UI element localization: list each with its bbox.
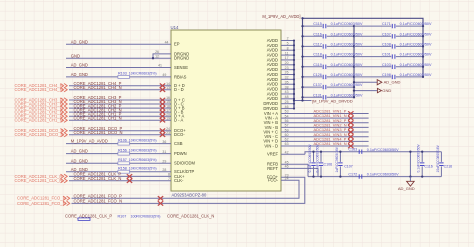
ground symbol AD_GND bbox=[409, 177, 411, 182]
svg-text:RBIAS: RBIAS bbox=[174, 74, 187, 79]
svg-text:10uF/CC0805/16V: 10uF/CC0805/16V bbox=[436, 144, 440, 172]
svg-text:C198: C198 bbox=[382, 73, 391, 77]
svg-text:CORE_ADC1281_DCO_N: CORE_ADC1281_DCO_N bbox=[15, 132, 64, 137]
svg-text:0.1uF/CC0603/50V: 0.1uF/CC0603/50V bbox=[400, 32, 432, 36]
svg-text:R106: R106 bbox=[118, 138, 127, 142]
wire net AD_GND to pin 41 SENSE bbox=[66, 67, 171, 69]
junction bbox=[301, 17, 303, 19]
svg-text:0.1uF/CC0603/50V: 0.1uF/CC0603/50V bbox=[400, 22, 432, 26]
IC U14 ADC body bbox=[171, 30, 281, 191]
wire net CORE_ADC1281_CLK_P to pin 8 bbox=[69, 175, 171, 177]
svg-text:8: 8 bbox=[287, 46, 289, 50]
wire net ADC1281_VIN4_N bbox=[281, 145, 369, 147]
capacitor C137 0.1uF bbox=[303, 86, 323, 88]
svg-text:C108: C108 bbox=[382, 42, 391, 46]
resistor R157 bbox=[118, 162, 130, 165]
svg-text:C117: C117 bbox=[313, 42, 322, 46]
differential pair no-ERC marks bbox=[160, 98, 165, 102]
wire net M_1P9V_AD_DRVDD bbox=[294, 100, 312, 102]
svg-text:CORE_ADC1281_CH1_N: CORE_ADC1281_CH1_N bbox=[15, 118, 63, 123]
wire net CORE_ADC1281_DCO_N to pin 23 bbox=[69, 134, 171, 136]
svg-text:41: 41 bbox=[158, 64, 162, 68]
wire net AD_GND to pin 31 bbox=[66, 153, 171, 155]
svg-text:23: 23 bbox=[285, 66, 289, 70]
no-ERC mark bbox=[348, 144, 353, 148]
wire net GND to pins 26/12 DRGND bbox=[66, 57, 171, 59]
resistor R158 bbox=[118, 170, 130, 173]
wire net ADC1281_VIN3_P bbox=[281, 131, 369, 133]
wire net ADC1281_VIN2_N bbox=[281, 126, 369, 128]
wire net CORE_ADC1281_CLK_N to pin 7 bbox=[69, 180, 171, 182]
svg-text:0.1uF/CC0603/50V: 0.1uF/CC0603/50V bbox=[331, 83, 363, 87]
svg-text:C119: C119 bbox=[313, 63, 322, 67]
wire AVDD collection rail bbox=[293, 41, 295, 109]
svg-text:12: 12 bbox=[155, 54, 159, 58]
svg-text:CSB: CSB bbox=[174, 141, 183, 146]
wire net AD_GND to pin 28 bbox=[66, 171, 171, 173]
svg-text:D - D: D - D bbox=[174, 87, 184, 92]
wire net CORE_ADC1281_FCO_P loop to FCO- pin 24 bbox=[72, 180, 300, 198]
svg-text:C103: C103 bbox=[382, 63, 391, 67]
svg-text:SENSE: SENSE bbox=[174, 65, 188, 70]
wire REF decoupling bottom rail bbox=[308, 176, 441, 178]
svg-text:M_1P9V_AD_AVDD]: M_1P9V_AD_AVDD] bbox=[262, 14, 300, 19]
svg-text:R156: R156 bbox=[118, 148, 127, 152]
wire net CORE_ADC1281_CH3_P to pin 16 bbox=[69, 99, 171, 101]
svg-text:26: 26 bbox=[285, 71, 289, 75]
wire net AD_GND to pin 49 bbox=[66, 76, 171, 78]
no-ERC mark bbox=[348, 111, 353, 115]
svg-text:EP: EP bbox=[174, 42, 180, 47]
svg-text:60: 60 bbox=[285, 133, 289, 137]
svg-text:35: 35 bbox=[285, 80, 289, 84]
svg-text:VREF: VREF bbox=[267, 152, 279, 157]
wire net AD_GND to pin 44 EP bbox=[66, 43, 171, 45]
svg-text:C137: C137 bbox=[313, 83, 322, 87]
svg-text:62: 62 bbox=[285, 138, 289, 142]
wire net ADC1281_VIN1_N bbox=[281, 117, 369, 119]
svg-text:C115: C115 bbox=[313, 22, 322, 26]
svg-text:46: 46 bbox=[285, 165, 289, 169]
capacitor C163 0.1uF bbox=[359, 150, 362, 154]
wire net CORE_ADC1281_CH2_N to pin 17 bbox=[69, 111, 171, 113]
wire net CORE_ADC1281_CH3_N to pin 15 bbox=[69, 103, 171, 105]
no-ERC mark bbox=[348, 135, 353, 139]
no-ERC mark bbox=[348, 116, 353, 120]
no-ERC mark bbox=[348, 125, 353, 129]
svg-text:CORE_ADC1281_FCO_N: CORE_ADC1281_FCO_N bbox=[17, 201, 66, 206]
no-ERC mark bbox=[348, 139, 353, 143]
svg-text:38: 38 bbox=[285, 85, 289, 89]
svg-text:CORE_ADC1281_CLK_N: CORE_ADC1281_CLK_N bbox=[74, 176, 122, 181]
svg-text:R107: R107 bbox=[118, 214, 127, 218]
svg-text:0.1uF/CC0603/50V: 0.1uF/CC0603/50V bbox=[400, 63, 432, 67]
svg-text:7: 7 bbox=[168, 177, 170, 181]
wire net CORE_ADC1281_CH2_P to pin 18 bbox=[69, 107, 171, 109]
svg-text:25: 25 bbox=[285, 100, 289, 104]
resistor R106 bbox=[118, 142, 130, 145]
svg-text:AD_GND: AD_GND bbox=[71, 63, 88, 68]
svg-text:0.1uF/CC0603/50V: 0.1uF/CC0603/50V bbox=[400, 42, 432, 46]
svg-text:C116: C116 bbox=[313, 32, 322, 36]
svg-text:2: 2 bbox=[287, 37, 289, 41]
no-ERC mark bbox=[348, 130, 353, 134]
svg-text:C171: C171 bbox=[382, 22, 391, 26]
svg-text:0.1uF/CC0603/50V: 0.1uF/CC0603/50V bbox=[400, 53, 432, 57]
svg-text:10K/CR0603(5%): 10K/CR0603(5%) bbox=[129, 72, 157, 76]
svg-text:10K/CR0603(5%): 10K/CR0603(5%) bbox=[129, 138, 157, 142]
svg-text:CORE_ADC1281_DCO_N: CORE_ADC1281_DCO_N bbox=[74, 130, 123, 135]
capacitor C171 0.1uF bbox=[354, 25, 391, 27]
capacitor C216 bbox=[440, 152, 442, 162]
capacitor C108 0.1uF bbox=[354, 45, 391, 47]
svg-text:AD_GND: AD_GND bbox=[384, 80, 401, 85]
svg-text:R103: R103 bbox=[118, 72, 127, 76]
svg-text:23: 23 bbox=[166, 131, 170, 135]
differential pair no-ERC marks bbox=[160, 84, 165, 88]
svg-text:44: 44 bbox=[165, 41, 169, 45]
no-ERC mark bbox=[348, 121, 353, 125]
differential pair no-ERC marks bbox=[160, 129, 165, 133]
svg-text:19: 19 bbox=[166, 116, 170, 120]
wire net CORE_ADC1281_CH1_P to pin 20 bbox=[69, 115, 171, 117]
capacitor C115 0.1uF bbox=[303, 25, 323, 27]
svg-text:GND: GND bbox=[382, 88, 391, 93]
wire net AD_GND to pin 29 bbox=[66, 162, 171, 164]
svg-text:49: 49 bbox=[162, 73, 166, 77]
svg-text:CORE_ADC1281_CH4_N: CORE_ADC1281_CH4_N bbox=[15, 87, 63, 92]
wire net CORE_ADC1281_DCO_P to pin 24 bbox=[69, 130, 171, 132]
svg-text:AD_GND: AD_GND bbox=[71, 39, 88, 44]
svg-text:0.1uF/CC0603/50V: 0.1uF/CC0603/50V bbox=[417, 143, 421, 172]
wire AVDD pin stubs to rail bbox=[281, 40, 294, 42]
svg-text:M_1P9V_AD_AVDD: M_1P9V_AD_AVDD bbox=[71, 139, 108, 144]
svg-text:59: 59 bbox=[285, 128, 289, 132]
svg-text:AD_GND: AD_GND bbox=[398, 186, 415, 191]
wire net ADC1281_VIN3_N bbox=[281, 136, 369, 138]
differential pair no-ERC marks bbox=[127, 174, 132, 178]
svg-text:REFT: REFT bbox=[267, 166, 278, 171]
svg-text:0.1uF/CC0603/50V: 0.1uF/CC0603/50V bbox=[367, 148, 399, 152]
wire net CORE_ADC1281_CH4_N to pin 13 bbox=[69, 89, 171, 91]
svg-text:FCO-: FCO- bbox=[268, 178, 279, 183]
FCO no-ERC marks bbox=[158, 196, 163, 200]
svg-text:C118: C118 bbox=[313, 53, 322, 57]
svg-text:0.1uF/CC0603/50V: 0.1uF/CC0603/50V bbox=[367, 173, 399, 177]
svg-text:0.1uF/CC0603/50V: 0.1uF/CC0603/50V bbox=[331, 53, 363, 57]
svg-text:0.1uF/CC0603/50V: 0.1uF/CC0603/50V bbox=[400, 73, 432, 77]
svg-text:C163: C163 bbox=[348, 148, 357, 152]
svg-text:CLK-: CLK- bbox=[174, 178, 184, 183]
svg-text:28: 28 bbox=[162, 168, 166, 172]
capacitor C131 0.1uF bbox=[303, 96, 323, 98]
svg-text:R158: R158 bbox=[118, 167, 127, 171]
svg-text:42: 42 bbox=[285, 151, 289, 155]
svg-text:C106: C106 bbox=[324, 162, 333, 166]
capacitor C198 0.1uF bbox=[354, 76, 391, 78]
svg-text:54: 54 bbox=[285, 114, 289, 118]
svg-text:CORE_ADC1281_CLK_N: CORE_ADC1281_CLK_N bbox=[15, 178, 63, 183]
svg-text:0.1uF/CC0603/50V: 0.1uF/CC0603/50V bbox=[308, 143, 312, 172]
svg-text:SDIO/ODM: SDIO/ODM bbox=[174, 161, 195, 166]
capacitor C101 0.1uF bbox=[354, 56, 391, 58]
svg-text:C216: C216 bbox=[444, 164, 453, 168]
svg-text:20: 20 bbox=[285, 61, 289, 65]
capacitor C119 0.1uF bbox=[303, 66, 323, 68]
wire ground mid rail bbox=[353, 26, 355, 97]
wire net CORE_ADC1281_CH1_N to pin 19 bbox=[69, 119, 171, 121]
differential pair no-ERC marks bbox=[160, 114, 165, 118]
svg-text:29: 29 bbox=[162, 160, 166, 164]
svg-text:GND: GND bbox=[71, 53, 80, 58]
svg-text:13: 13 bbox=[166, 86, 170, 90]
capacitor C126 0.1uF bbox=[303, 76, 323, 78]
svg-text:1uF/CC0603/16V: 1uF/CC0603/16V bbox=[335, 146, 339, 172]
resistor R103 bbox=[118, 75, 130, 78]
svg-text:32: 32 bbox=[285, 76, 289, 80]
svg-text:0.1uF/CC0603/50V: 0.1uF/CC0603/50V bbox=[331, 63, 363, 67]
svg-text:DCO-: DCO- bbox=[174, 132, 185, 137]
svg-text:C101: C101 bbox=[382, 53, 391, 57]
svg-text:C131: C131 bbox=[313, 93, 322, 97]
svg-text:U14: U14 bbox=[171, 25, 179, 30]
svg-text:56: 56 bbox=[285, 119, 289, 123]
svg-text:AD_GND: AD_GND bbox=[71, 149, 88, 154]
svg-text:C107: C107 bbox=[382, 32, 391, 36]
power port AD_GND bbox=[354, 81, 377, 83]
wire net CORE_ADC1281_CH4_P to pin 14 bbox=[69, 85, 171, 87]
svg-text:5: 5 bbox=[287, 42, 289, 46]
svg-text:48: 48 bbox=[285, 95, 289, 99]
svg-text:AD_GND: AD_GND bbox=[71, 158, 88, 163]
svg-text:0.1uF/CC0603/50V: 0.1uF/CC0603/50V bbox=[331, 42, 363, 46]
capacitor C116 bbox=[421, 152, 423, 162]
svg-text:43: 43 bbox=[285, 90, 289, 94]
svg-text:AD9253ABCPZ-80: AD9253ABCPZ-80 bbox=[172, 192, 207, 197]
capacitor C107 0.1uF bbox=[354, 35, 391, 37]
wire VREF to decoupling (top) bbox=[281, 153, 305, 155]
wire net ADC1281_VIN2_P bbox=[281, 122, 369, 124]
svg-text:100R/CR0603(5%): 100R/CR0603(5%) bbox=[131, 214, 161, 218]
wire net ADC1281_VIN4_P bbox=[281, 140, 369, 142]
svg-text:C116: C116 bbox=[424, 164, 432, 168]
wire net CORE_ADC1281_FCO_N loop to FCO+ pin 23 bbox=[72, 177, 305, 203]
wire REFB to decoupling (bottom) bbox=[281, 163, 308, 165]
svg-text:11: 11 bbox=[285, 51, 289, 55]
capacitor C103 0.1uF bbox=[354, 66, 391, 68]
svg-text:AD_GND: AD_GND bbox=[71, 72, 88, 77]
svg-text:CORE_ADC1281_CH1_N: CORE_ADC1281_CH1_N bbox=[74, 115, 122, 120]
wire AVDD top rail bbox=[303, 18, 424, 100]
svg-text:D - A: D - A bbox=[174, 118, 183, 123]
wire vertical tie at x=410.4 bbox=[409, 152, 411, 177]
capacitor vertical at x=321 bbox=[320, 152, 322, 162]
wire REFT to decoupling (bottom) bbox=[281, 167, 318, 169]
resistor R156 bbox=[118, 152, 130, 155]
svg-text:53: 53 bbox=[285, 110, 289, 114]
svg-text:63: 63 bbox=[285, 142, 289, 146]
svg-text:C172: C172 bbox=[348, 173, 357, 177]
svg-text:C107: C107 bbox=[344, 165, 353, 169]
svg-text:10K/CR0603(5%): 10K/CR0603(5%) bbox=[129, 167, 157, 171]
svg-text:R157: R157 bbox=[118, 158, 127, 162]
capacitor vertical at x=340.4 bbox=[339, 152, 341, 162]
svg-text:CORE_ADC1281_CLK_N: CORE_ADC1281_CLK_N bbox=[167, 213, 214, 218]
svg-text:57: 57 bbox=[285, 124, 289, 128]
svg-text:0.1uF/CC0603/50V: 0.1uF/CC0603/50V bbox=[331, 73, 363, 77]
svg-text:36: 36 bbox=[162, 140, 166, 144]
svg-text:PDWN: PDWN bbox=[174, 151, 187, 156]
differential pair no-ERC marks bbox=[160, 106, 165, 110]
svg-text:10K/CR0603(5%): 10K/CR0603(5%) bbox=[129, 148, 157, 152]
svg-text:0.1uF/CC0603/50V: 0.1uF/CC0603/50V bbox=[331, 22, 363, 26]
svg-text:10K/CR0603(5%): 10K/CR0603(5%) bbox=[129, 158, 157, 162]
capacitor vertical at x=313.5 bbox=[313, 152, 315, 162]
junction bbox=[152, 57, 154, 59]
svg-text:0.1uF/CC0603/50V: 0.1uF/CC0603/50V bbox=[331, 93, 363, 97]
svg-text:CORE_ADC1281_CH4_N: CORE_ADC1281_CH4_N bbox=[74, 85, 122, 90]
svg-text:C126: C126 bbox=[313, 73, 322, 77]
capacitor C172 0.1uF bbox=[359, 174, 362, 178]
svg-text:VIN - D: VIN - D bbox=[264, 143, 278, 148]
power port GND bbox=[354, 90, 377, 92]
capacitor C118 0.1uF bbox=[303, 56, 323, 58]
capacitor C117 0.1uF bbox=[303, 45, 323, 47]
svg-text:CORE_ADC1281_FCO_N: CORE_ADC1281_FCO_N bbox=[74, 199, 123, 204]
wire net ADC1281_VIN1_P bbox=[281, 113, 369, 115]
svg-text:17: 17 bbox=[285, 56, 289, 60]
svg-text:[M_1P9V_AD_DRVDD: [M_1P9V_AD_DRVDD bbox=[312, 98, 353, 103]
wire net M_1P9V_AD_AVDD to pin 36 bbox=[66, 143, 171, 145]
svg-text:46: 46 bbox=[285, 105, 289, 109]
svg-text:DRGND: DRGND bbox=[174, 56, 189, 61]
resistor R107 bbox=[78, 218, 90, 221]
svg-text:0.1uF/CC0603/50V: 0.1uF/CC0603/50V bbox=[315, 143, 319, 172]
svg-text:24: 24 bbox=[285, 177, 289, 181]
capacitor C116 0.1uF bbox=[303, 35, 323, 37]
svg-text:31: 31 bbox=[162, 150, 166, 154]
svg-text:0.1uF/CC0603/50V: 0.1uF/CC0603/50V bbox=[331, 32, 363, 36]
